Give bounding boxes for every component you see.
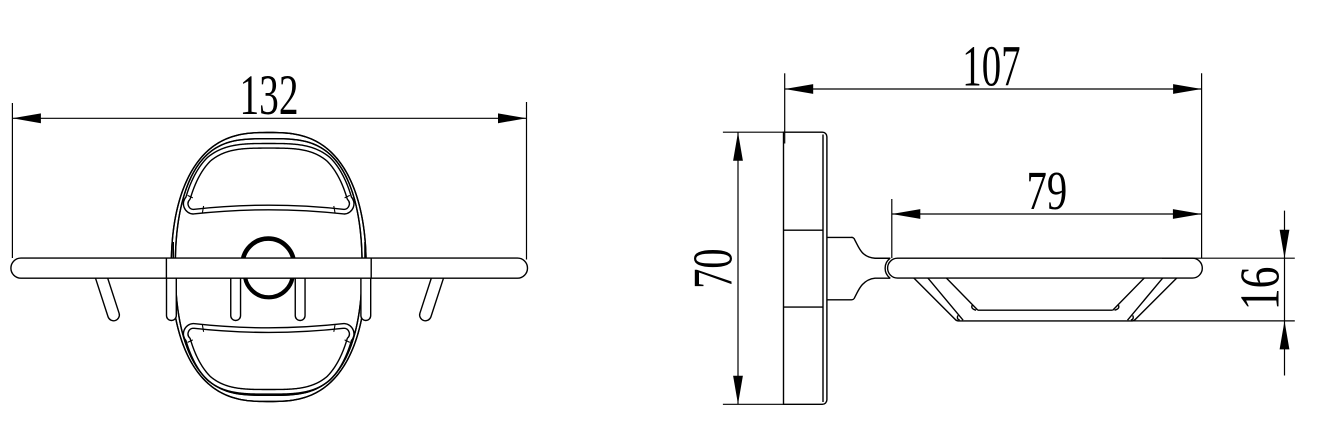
svg-text:132: 132 xyxy=(240,63,299,127)
svg-text:16: 16 xyxy=(1228,267,1290,311)
svg-text:107: 107 xyxy=(962,34,1020,99)
svg-text:79: 79 xyxy=(1027,161,1068,221)
svg-text:70: 70 xyxy=(682,248,744,288)
